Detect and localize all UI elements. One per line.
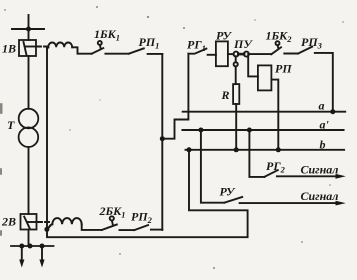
- svg-text:R: R: [221, 88, 230, 102]
- svg-text:РУ: РУ: [220, 185, 236, 199]
- svg-text:РП: РП: [275, 62, 292, 76]
- svg-text:Т: Т: [7, 118, 15, 132]
- svg-text:2В: 2В: [1, 215, 16, 229]
- svg-text:a': a': [320, 118, 330, 132]
- svg-text:b: b: [320, 137, 326, 151]
- svg-text:a: a: [319, 99, 325, 113]
- svg-text:1В: 1В: [2, 42, 16, 56]
- svg-text:Сигнал: Сигнал: [301, 163, 339, 177]
- svg-text:ПУ: ПУ: [233, 37, 253, 51]
- svg-text:РУ: РУ: [216, 29, 232, 43]
- svg-text:Сигнал: Сигнал: [301, 189, 339, 203]
